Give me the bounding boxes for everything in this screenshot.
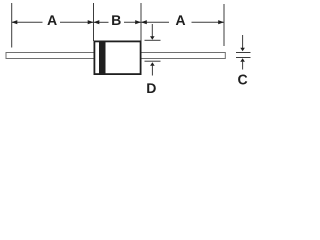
dimension C upper tick bbox=[236, 52, 251, 54]
label B bbox=[112, 15, 121, 25]
label A right bbox=[176, 15, 185, 25]
label D bbox=[147, 83, 156, 93]
dimension D upper arrow bbox=[150, 24, 155, 40]
extension line left lead end (dimension A left) bbox=[11, 3, 13, 48]
extension line right lead end (dimension A right) bbox=[223, 4, 225, 46]
dimension C lower tick bbox=[236, 57, 251, 59]
dimension line A right with outward arrows bbox=[141, 20, 224, 24]
extension line body left edge (A/B boundary) bbox=[93, 3, 95, 41]
dimension D lower tick bbox=[145, 60, 161, 62]
dimension line A left with outward arrows bbox=[12, 20, 94, 24]
dimension D upper tick bbox=[145, 39, 161, 41]
dimension C lower arrow bbox=[240, 58, 245, 69]
dimension D lower arrow bbox=[150, 62, 155, 75]
left lead wire bbox=[6, 53, 94, 59]
diode body bbox=[94, 41, 140, 74]
dimension line B with outward arrows bbox=[94, 20, 142, 24]
dimension C upper arrow bbox=[240, 35, 245, 51]
extension line body right edge (B/A boundary) bbox=[140, 3, 142, 41]
right lead wire bbox=[141, 53, 225, 59]
label A left bbox=[47, 15, 56, 25]
cathode band bbox=[99, 41, 106, 74]
label C bbox=[238, 75, 247, 85]
